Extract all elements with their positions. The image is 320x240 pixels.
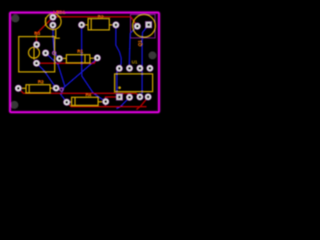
svg-text:U1: U1: [132, 60, 138, 65]
svg-text:R2: R2: [38, 79, 44, 84]
svg-text:R1: R1: [77, 49, 83, 54]
svg-text:LED1: LED1: [53, 10, 65, 15]
svg-text:R4: R4: [85, 92, 91, 97]
svg-text:Q1: Q1: [137, 40, 142, 47]
svg-text:R3: R3: [34, 30, 40, 35]
svg-text:R2: R2: [98, 14, 104, 19]
